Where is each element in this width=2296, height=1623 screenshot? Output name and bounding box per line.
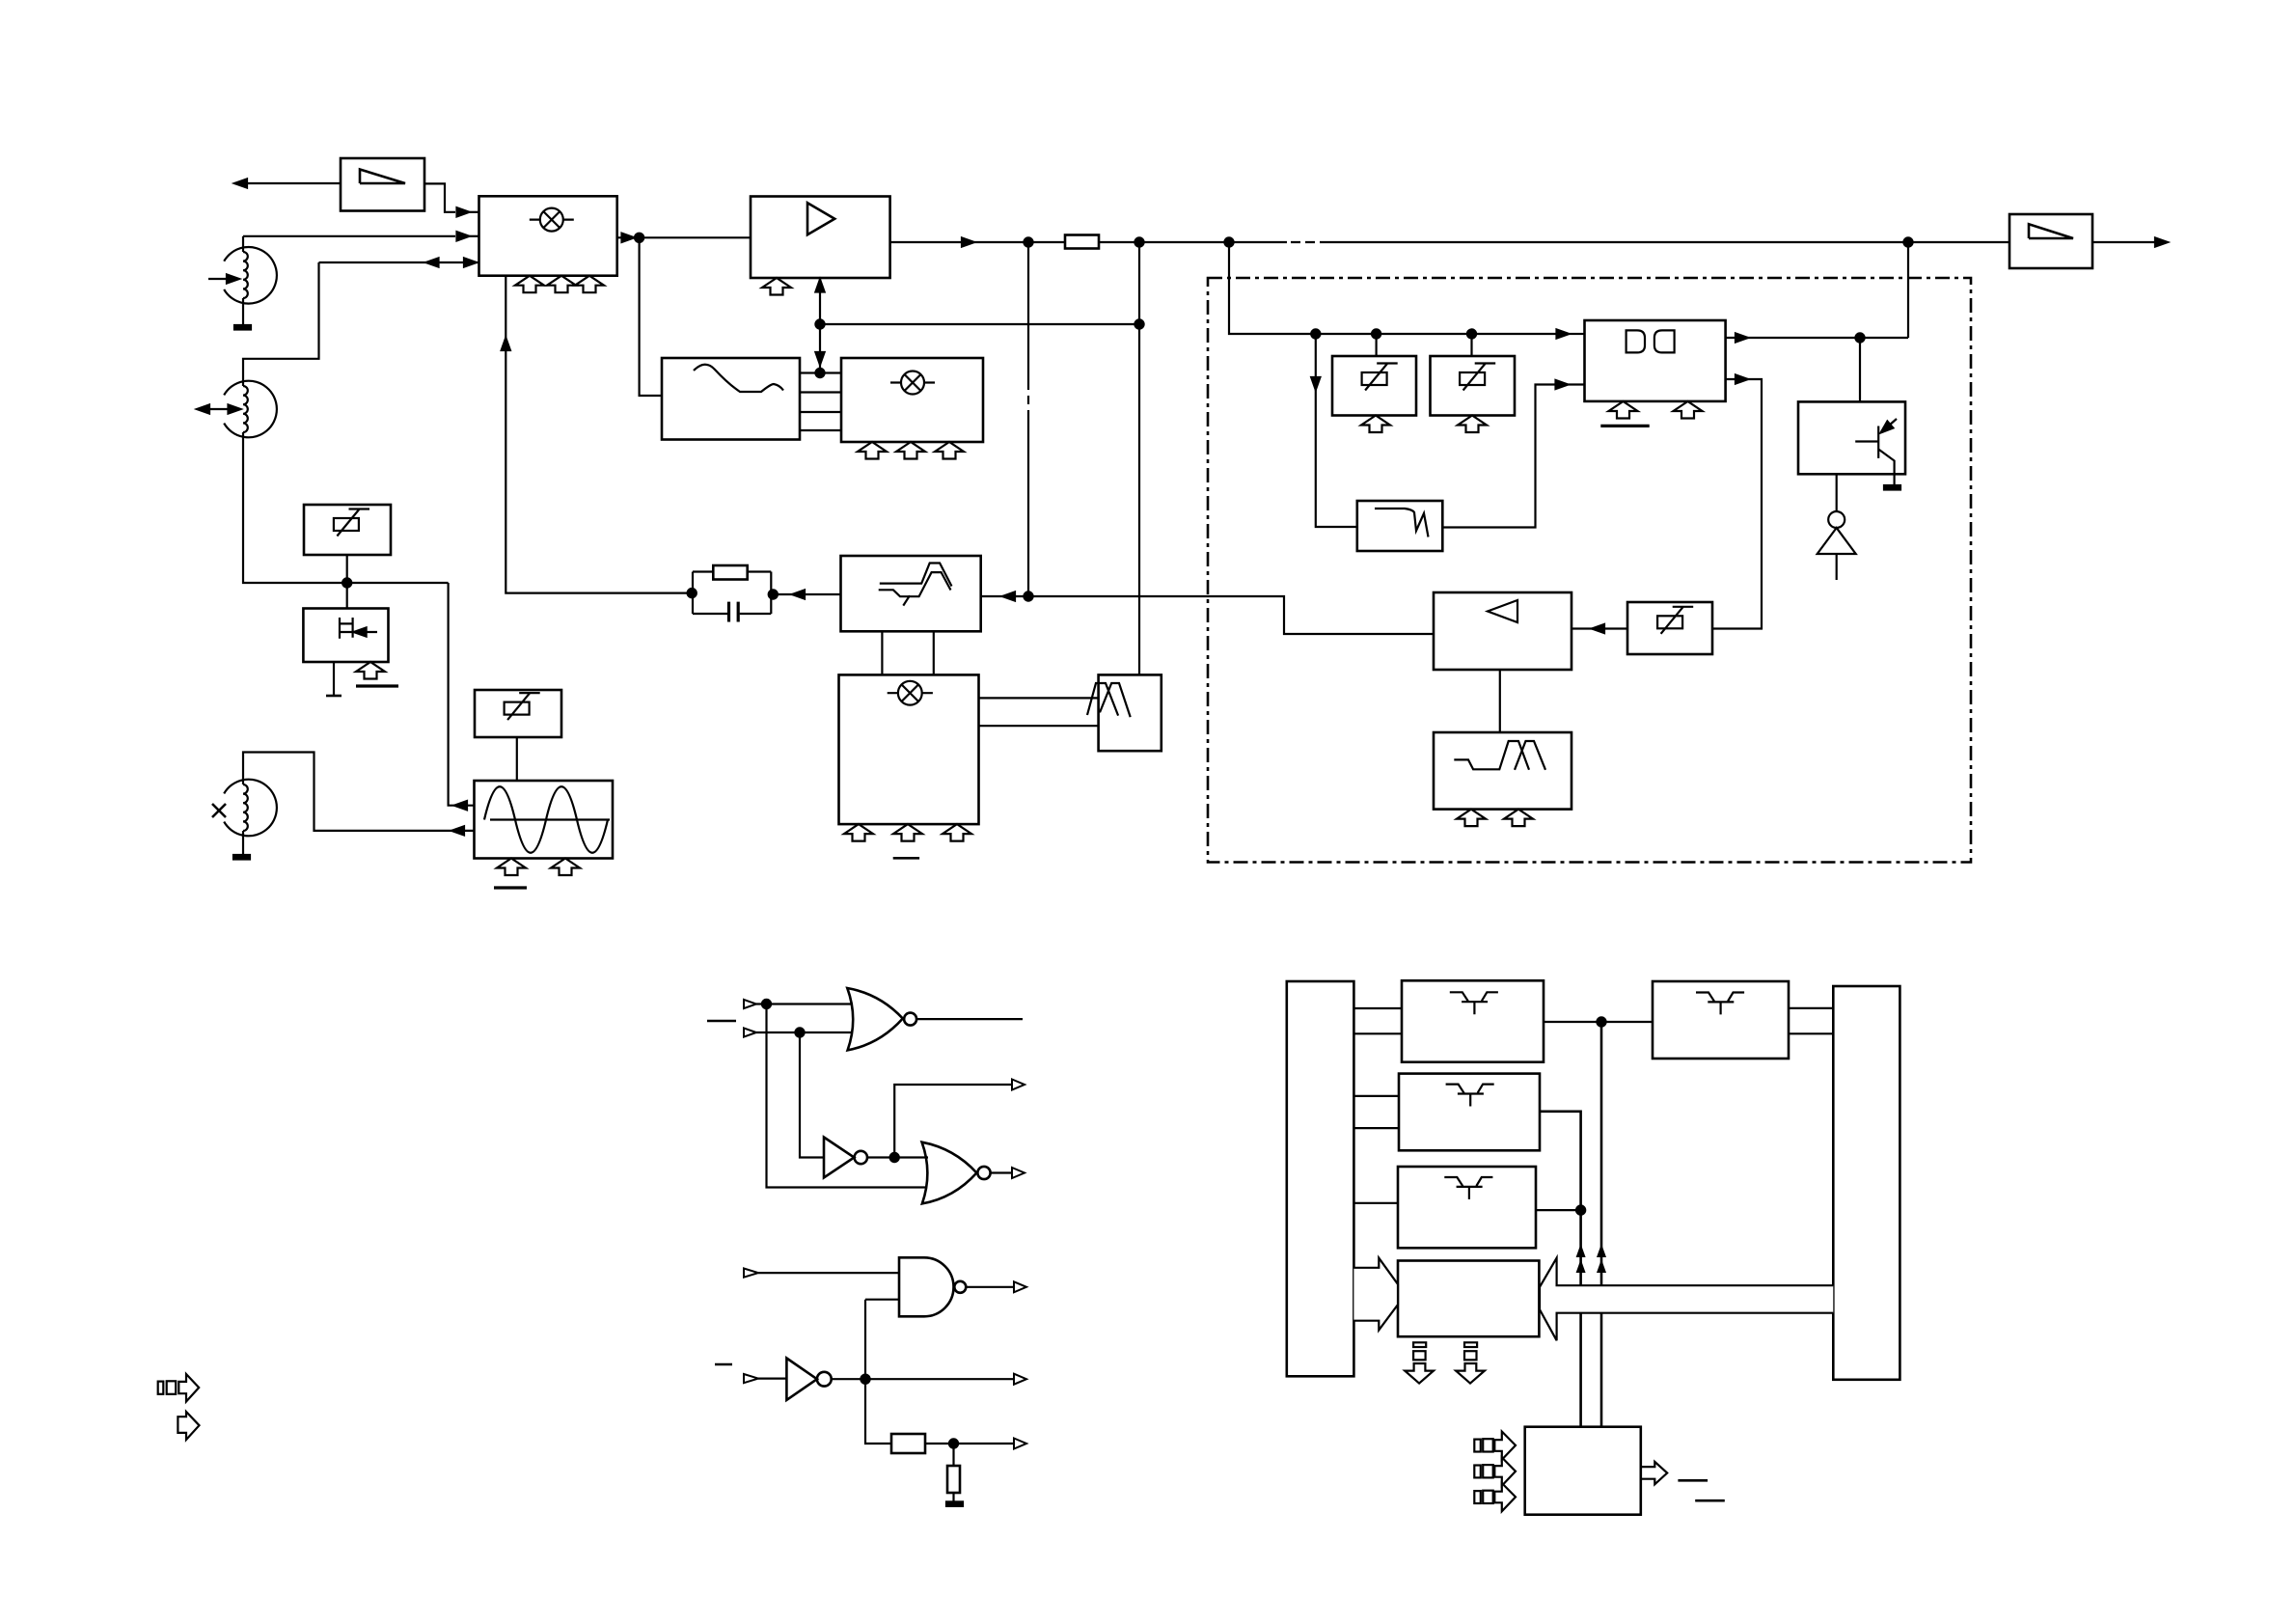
label line under U3 — [893, 857, 919, 860]
x mark at L3 — [212, 804, 226, 817]
driver box DRV2 — [1399, 1074, 1540, 1151]
MCU right port arrow — [1641, 1462, 1667, 1484]
connector rect-DRV1 line 1 — [1353, 1007, 1402, 1009]
mixer symbol in U1 — [530, 208, 574, 232]
varactor icon in B3 — [1362, 363, 1398, 391]
tuning arrow 2 under U4 — [1504, 810, 1533, 827]
DMA port symbol 2 below — [1456, 1342, 1485, 1383]
output marker h — [1014, 1374, 1026, 1385]
decay curve icon in Z2 — [1375, 509, 1429, 537]
arrowhead DD1 output 1 — [1736, 333, 1748, 342]
wire DRV3 output — [1536, 1209, 1581, 1211]
tuning arrow 1 under U3 — [844, 824, 873, 841]
arrowhead into divider DD1 input 1 — [1557, 329, 1570, 338]
bidirectional arrow at L2 — [209, 408, 229, 410]
wire input a down to NOR3 — [767, 1004, 928, 1188]
wire stub into DD1 input 2 — [1569, 383, 1585, 385]
node main x1274 — [1224, 237, 1233, 246]
wire L1 top to main input line — [242, 236, 244, 252]
wire B5 to comparator A3 — [1572, 627, 1627, 629]
wire demod amp output to node — [1028, 596, 1434, 634]
stub A3 to ADC — [1499, 670, 1501, 732]
port register rectangle left — [1287, 981, 1354, 1376]
mixer U2 — [841, 358, 983, 442]
varactor icon in B5 — [1657, 606, 1693, 634]
tuning arrow 1 under U4 — [1457, 810, 1486, 827]
label line MCU out 1 — [1678, 1479, 1708, 1482]
driver box DRV1 — [1402, 980, 1544, 1061]
legend bus symbol rect small — [158, 1382, 164, 1394]
big bus arrow right-rect to DMA — [1540, 1258, 1833, 1341]
attenuator box B5 — [1627, 602, 1712, 654]
legend bus symbol rect medium — [167, 1381, 177, 1394]
tuning arrow 2 under G1 — [551, 859, 580, 876]
tuning arrow 1 under DD1 — [1609, 401, 1638, 419]
limiter box N1 — [841, 556, 981, 631]
coil of L3 — [243, 784, 248, 831]
driver symbol in DRV3 — [1444, 1177, 1492, 1199]
tuning arrow 1 under U1 — [515, 276, 544, 293]
wire A1 to mixer U1 input 1 — [424, 183, 455, 211]
input marker b — [744, 1028, 756, 1036]
coil circle L2 (TRX antenna) — [224, 381, 277, 438]
DD icon left square — [1626, 330, 1645, 352]
stub to B4 — [1470, 334, 1472, 356]
resistor R4 — [947, 1466, 960, 1493]
node input a — [762, 1000, 771, 1008]
varactor box B1 — [304, 505, 391, 555]
G3 output wire — [991, 1171, 1012, 1173]
wire L1 bottom to ground — [242, 298, 244, 325]
tuning arrow 2 under U3 — [893, 824, 922, 841]
wire input a to NOR1 — [756, 1003, 853, 1004]
inverter V1 — [824, 1138, 854, 1178]
tuning arrow 3 under U1 — [575, 276, 604, 293]
resistor R2 — [713, 565, 747, 580]
bus arrowheads up on line 1 — [1576, 1244, 1586, 1273]
wire DRV2 output — [1540, 1112, 1581, 1427]
node R3 output — [949, 1439, 958, 1447]
DD icon right square — [1654, 330, 1675, 352]
wire stub into DD1 — [1570, 333, 1585, 335]
tuning arrow 1 under G1 — [497, 859, 526, 876]
driver symbol in DRV4 — [1696, 993, 1744, 1015]
NAND gate G4 — [899, 1257, 954, 1316]
vertical from main line to DD out line — [1907, 242, 1909, 338]
branch V1 output up and right — [894, 1085, 1012, 1158]
DMA port symbol 1 below — [1405, 1342, 1434, 1383]
coil circle L3 (clock crystal coil) — [224, 780, 277, 837]
connector U3-D1 line 1 — [979, 697, 1099, 699]
wire osc node down to reference oscillator G1 — [449, 583, 475, 806]
V1 output wire — [867, 1156, 928, 1158]
wire Z2 to divider DD1 input 2 — [1442, 385, 1555, 528]
connector rect-DRV3 line — [1353, 1202, 1398, 1204]
response curve icon in Z1 — [694, 365, 783, 392]
mixer symbol in U2 — [890, 371, 935, 395]
NOR gate G2 — [847, 988, 903, 1050]
output marker c — [1012, 1080, 1025, 1090]
driver box DRV4 — [1653, 981, 1789, 1059]
node feedback x1066 — [1024, 591, 1032, 600]
transistor symbol in Q2 — [1855, 419, 1897, 485]
varactor icon in B2 — [505, 693, 540, 721]
node RC left — [688, 589, 697, 597]
tuning arrow 3 under U2 — [935, 442, 964, 459]
connector U3-D1 line 2 — [979, 725, 1099, 727]
arrowhead left at L2 — [197, 404, 209, 413]
arrowhead up at A2 bottom — [815, 280, 824, 292]
arrowhead into mixer U1 input 1 — [457, 207, 470, 216]
driver box DRV3 — [1398, 1167, 1536, 1248]
node main/AGC branch — [1024, 237, 1032, 246]
waveform icon in D1 — [1087, 683, 1131, 717]
main line after R1 — [1099, 241, 1287, 243]
MCU left port 2 — [1474, 1457, 1516, 1485]
wire L2 bottom to osc node — [243, 432, 449, 583]
arrowhead right on bidirectional line — [464, 258, 477, 266]
arrowhead into N1 — [1002, 591, 1015, 600]
AGC vertical lower part — [1027, 419, 1029, 596]
wire below inverter — [1836, 554, 1838, 580]
DMA box — [1398, 1261, 1539, 1337]
port register rectangle right — [1833, 986, 1900, 1380]
stub into Q2 — [1859, 338, 1861, 401]
legend bus symbol arrow — [178, 1374, 199, 1402]
connector line 2 Z1-U2 — [800, 391, 841, 393]
wire NAND1 lower input — [865, 1299, 899, 1301]
arrowhead up on modulation wire — [502, 338, 510, 350]
transistor buffer box Q2 — [1798, 401, 1905, 474]
tuning arrow 2 under U1 — [547, 276, 576, 293]
label line at gate inputs — [707, 1020, 736, 1023]
wire into N1 from feedback node — [981, 595, 1028, 597]
bubble of G2 — [904, 1013, 916, 1026]
underline below DD1 arrow — [1600, 425, 1649, 427]
V2 output wire — [832, 1378, 1014, 1380]
DD1 output 2 wire — [1712, 379, 1762, 629]
arrowhead final output — [2155, 237, 2168, 246]
main line to output box — [1329, 241, 2009, 243]
driver symbol in DRV1 — [1450, 992, 1498, 1014]
node on level line — [815, 319, 824, 328]
ground of R4 — [946, 1501, 963, 1506]
underline below Q1 arrow — [356, 684, 398, 687]
DD1 output 1 wire — [1726, 337, 1908, 339]
arrowhead out of G1 lower — [451, 826, 464, 835]
node varactor/osc — [342, 578, 351, 587]
FET symbol in Q1 — [339, 618, 377, 639]
stub Q2 to inverter — [1836, 474, 1838, 511]
G2 output line — [916, 1018, 1023, 1020]
tuning arrow under A2 — [762, 278, 791, 295]
arrowhead into RC — [792, 590, 805, 598]
connector rect-DRV1 line 2 — [1353, 1032, 1402, 1034]
wire R4 to ground — [952, 1493, 954, 1501]
node main x1978 — [1903, 237, 1912, 246]
arrowhead into A3 — [1592, 624, 1604, 633]
ground bar of Q2 — [1884, 485, 1900, 490]
node DRV3/bus — [1576, 1206, 1585, 1215]
inverter bubble below Q2 — [1828, 511, 1845, 528]
amplifier A2 — [751, 197, 890, 279]
DAC feed vertical x1181 — [1138, 242, 1140, 674]
connector line 1 Z1-U2 — [800, 371, 841, 373]
wire input b to NOR1 — [756, 1032, 853, 1033]
coil circle L1 (receive antenna) — [224, 247, 277, 304]
capacitor C1 plates — [729, 602, 739, 622]
dashed segment of AGC vertical — [1027, 381, 1029, 419]
node after U1 — [635, 234, 643, 242]
arrowhead down toward mixer U2 — [815, 352, 824, 365]
resistor R1 — [1065, 235, 1099, 249]
node V2 output — [861, 1375, 869, 1384]
arrowhead on main line after A2 — [962, 237, 974, 246]
input marker e — [744, 1269, 758, 1278]
node ref/VCO-A — [1372, 329, 1380, 338]
stub to B3 — [1375, 334, 1377, 356]
bubble of V2 — [817, 1372, 832, 1387]
wire level branch to x1181 — [820, 323, 1139, 325]
tuning arrow 2 under U2 — [896, 442, 925, 459]
wire ref node down to loop filter Z2 — [1316, 334, 1357, 527]
output marker i — [1014, 1439, 1026, 1449]
node ref/VCO-B — [1467, 329, 1476, 338]
label line MCU out 2 — [1695, 1499, 1725, 1502]
arrowhead into DD1 input 2 — [1556, 380, 1569, 389]
amp triangle in A3 — [1488, 600, 1517, 622]
wire B2 to G1 — [516, 737, 518, 781]
branch V2 output up to NAND and down to divider R — [865, 1300, 891, 1444]
arrowhead into L1 — [227, 274, 239, 283]
output marker d — [1012, 1168, 1025, 1178]
driver symbol in DRV2 — [1446, 1085, 1494, 1107]
wire U1 output — [617, 236, 621, 238]
arrowhead out of G1 upper — [454, 801, 467, 810]
arrowhead right at L2 — [229, 404, 241, 413]
arrowhead into U1 input 2 — [457, 232, 470, 240]
ramp icon in A1 — [360, 170, 405, 184]
big bus arrow rect to DMA — [1353, 1258, 1398, 1331]
mixer U3 — [839, 674, 979, 824]
label line at inverter input — [715, 1363, 732, 1366]
DAC box D1 — [1099, 674, 1162, 751]
ground of L1 — [234, 325, 251, 330]
output marker f — [1014, 1281, 1026, 1292]
arrowhead left on bidirectional line — [426, 258, 439, 266]
node level/x1181 — [1134, 319, 1143, 328]
underline below G1 arrow — [494, 886, 527, 889]
node ref/x1363.8 — [1311, 329, 1320, 338]
wire input e to NAND1 — [758, 1272, 899, 1274]
output attenuator box A4 — [2009, 214, 2092, 268]
wire stub input2 — [470, 235, 479, 237]
inverter triangle below Q2 — [1818, 528, 1856, 554]
arrowhead DD1 output 2 — [1736, 374, 1748, 383]
node input b — [795, 1028, 804, 1036]
arrowhead down on Z2 feed — [1311, 377, 1320, 390]
wire B1 to node — [346, 555, 348, 583]
node at connector line — [815, 369, 824, 377]
wire TX input — [234, 182, 341, 184]
wire R3 to output — [925, 1443, 1014, 1444]
ground of L3 — [233, 855, 250, 860]
wire input g to inverter V2 — [758, 1377, 786, 1379]
bus arrowheads up on line 2 — [1597, 1244, 1606, 1273]
bubble of V1 — [855, 1151, 867, 1164]
node RC right — [769, 590, 778, 598]
wire node down to filter Z1 — [640, 237, 662, 396]
bubble of G3 — [977, 1167, 990, 1179]
wire A4 output — [2092, 241, 2154, 243]
input marker g — [744, 1374, 758, 1383]
connector DRV4-rect line 2 — [1789, 1032, 1833, 1034]
input marker a — [744, 1000, 756, 1008]
mixer U1 — [479, 196, 617, 275]
arrowhead U1 output — [622, 234, 635, 242]
connector line 3 Z1-U2 — [800, 411, 841, 413]
dashed break in main line — [1291, 241, 1329, 243]
divider box DD1 — [1585, 320, 1726, 401]
Q1 pin to test point — [333, 662, 335, 696]
PLL dash-dot boundary box — [1208, 278, 1971, 863]
ramp icon in A4 — [2029, 224, 2073, 238]
tuning arrow under B4 — [1458, 416, 1487, 433]
resistor R3 — [891, 1434, 925, 1453]
wire circle2 to U1 input 3 — [319, 261, 479, 263]
G4 output wire — [966, 1286, 1014, 1288]
tuning arrow 2 under DD1 — [1674, 401, 1703, 419]
sine icon in G1 — [484, 786, 610, 853]
coil of L1 — [243, 252, 248, 298]
connector N1 to U3 stub 2 — [933, 631, 935, 674]
node DRV1 output — [1597, 1017, 1605, 1026]
MCU left port 3 — [1474, 1483, 1516, 1511]
coil of L2 — [243, 386, 248, 432]
connector rect-DRV2 line 2 — [1353, 1127, 1399, 1129]
wire DRV1 to DRV4 — [1544, 1021, 1653, 1023]
VCO box B3 — [1332, 356, 1416, 416]
wire L2 top to U1 input 3 — [243, 262, 319, 386]
test point bar under Q1 — [326, 695, 342, 698]
amp triangle in A2 — [807, 203, 834, 234]
tuning arrow 3 under U3 — [943, 824, 971, 841]
wire A2 output main line — [890, 241, 962, 243]
MCU left port 1 — [1474, 1432, 1516, 1460]
legend plain arrow — [178, 1412, 199, 1440]
node V1 output — [890, 1153, 899, 1162]
wire node to FET box — [346, 583, 348, 609]
tuning arrow under B3 — [1361, 416, 1390, 433]
connector N1 to U3 stub 1 — [881, 631, 883, 674]
wire L3 bottom to ground — [242, 831, 244, 855]
NOR gate G3 — [922, 1142, 977, 1204]
node main x1181 — [1134, 237, 1143, 246]
VCO box B4 — [1431, 356, 1516, 416]
wire node down to resistor R4 — [952, 1444, 954, 1466]
inverter V2 — [786, 1359, 817, 1400]
node DD1 out/transistor — [1855, 333, 1864, 342]
wire input b down to inverter V1 — [800, 1032, 824, 1158]
connector rect-DRV2 line 1 — [1353, 1095, 1399, 1097]
comparator box A3 — [1434, 592, 1572, 670]
bidirectional level line A2 — [819, 278, 821, 372]
varactor icon in B1 — [334, 509, 369, 536]
bubble of G4 — [954, 1281, 966, 1293]
wire circle1 to U1 input 2 — [243, 235, 455, 237]
bus vertical 1 — [1600, 1022, 1603, 1427]
mixer symbol in U3 — [888, 681, 933, 705]
ADC box U4 — [1434, 732, 1572, 810]
main line to resistor R1 — [974, 241, 1065, 243]
waveform icon in U4 — [1454, 741, 1545, 770]
ramp generator box A1 — [341, 158, 424, 211]
connector DRV4-rect line 1 — [1789, 1007, 1833, 1009]
FET buffer box Q1 — [303, 609, 388, 663]
loop filter box Z2 — [1357, 501, 1443, 551]
wire limiter N1 to RC — [773, 593, 840, 595]
MCU box bottom — [1525, 1427, 1641, 1515]
varactor icon in B4 — [1460, 363, 1495, 391]
input arrow into L1 — [208, 278, 227, 280]
wire L3 top to G1 lower input — [243, 753, 475, 831]
RC parallel loop — [693, 572, 771, 615]
wire stub into U1 input1 — [470, 211, 479, 213]
reference feed vertical x1274 — [1229, 242, 1556, 334]
varactor box B2 — [475, 690, 561, 737]
limiter curve icon in N1 — [879, 564, 952, 606]
tuning arrow under Q1 — [356, 662, 385, 679]
wire node to amp A2 — [640, 236, 751, 238]
tuning arrow 1 under U2 — [858, 442, 887, 459]
connector line 4 Z1-U2 — [800, 429, 841, 431]
arrowhead TX input pointing left — [234, 179, 247, 187]
wire from U1 bottom to RC node — [506, 276, 691, 593]
reference oscillator G1 — [475, 781, 614, 859]
IF filter box Z1 — [662, 358, 800, 440]
AGC feedback vertical x1066 — [1027, 242, 1029, 381]
